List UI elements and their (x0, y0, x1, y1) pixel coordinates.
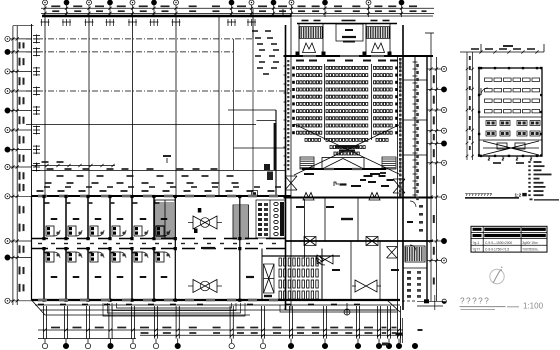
lobby walls (174, 196, 176, 300)
auditorium center text (335, 145, 359, 148)
top dimension line 1 (41, 7, 434, 9)
top dimension line 2 (41, 12, 434, 14)
wall label blobs (296, 60, 304, 62)
toilets right of lobby (256, 200, 285, 238)
entrance door left (butterfly) (303, 43, 316, 53)
right axis bubbles (441, 66, 446, 71)
backstage door left (hourglass) (285, 176, 297, 190)
svg-text:?????????: ????????? (465, 192, 492, 198)
top dimension text blobs (51, 5, 60, 7)
right strip door arcs (410, 201, 416, 251)
terrace outline lines (35, 305, 400, 315)
seat rows (297, 66, 322, 69)
north arrow circle (490, 269, 504, 283)
lobby elevation text 10.000 (201, 247, 215, 249)
hall bottom dimension line (32, 165, 116, 167)
entrance stair right (366, 27, 390, 39)
main title underline 1 (460, 306, 506, 308)
butterfly doors on backstage wall (303, 193, 314, 201)
front wall door gaps (303, 55, 316, 57)
small label M06 in hall (163, 155, 171, 157)
auditorium front wall (284, 55, 434, 57)
right dimension lines (430, 33, 432, 301)
main title dash (507, 306, 519, 308)
right wall fill (399, 58, 402, 60)
table row 2 (473, 234, 482, 237)
secondary plan door arc (481, 88, 488, 95)
hall right room horizontals (228, 109, 276, 111)
secondary plan top dimension line (460, 51, 544, 53)
svg-text:C-9-9—1500×2000: C-9-9—1500×2000 (485, 241, 512, 245)
left inner annotation column (287, 60, 289, 62)
room labels row 1 (51, 218, 58, 220)
annotation cluster right of hall (255, 37, 261, 39)
grid room door arc hatched (316, 256, 325, 265)
right strip mid fixtures (419, 205, 423, 208)
corridor walls (32, 238, 286, 240)
svg-text:?00?500m..: ?00?500m.. (522, 248, 539, 252)
bottom dimension blobs (51, 327, 60, 329)
column leader ticks below top wall (41, 19, 43, 26)
backstage wall (284, 197, 434, 199)
hall grid verticals (44, 16, 46, 195)
hall axis line C (26, 90, 291, 92)
room fixtures row 2 (46, 252, 54, 262)
legend list (528, 161, 530, 163)
secondary plan walls (479, 68, 542, 156)
short seat rows near stage (305, 138, 320, 141)
stage side steps right (382, 157, 396, 169)
auditorium right wall (402, 25, 404, 310)
seat grid room (279, 258, 281, 266)
room labels row 2 (51, 276, 58, 278)
left axis bubbles (5, 36, 10, 41)
stage apron marks (304, 173, 314, 175)
window labels below top wall (45, 202, 50, 204)
backstage labels (351, 185, 361, 187)
big room label (341, 218, 353, 220)
secondary plan stair X (483, 141, 539, 155)
room row2 right section walls (261, 249, 263, 301)
bottom dimension line 2 (140, 334, 403, 336)
secondary plan lower divider (479, 139, 542, 141)
bottom axis bubbles with leaders (42, 343, 47, 348)
extra bottom circle (412, 343, 417, 348)
right bottom corner dot (442, 299, 446, 303)
right strip lower room fixtures (407, 271, 411, 274)
bottom dimension line 1 (38, 329, 403, 331)
room block top wall with windows (32, 195, 292, 197)
hall right dark bar (274, 123, 276, 170)
staircase right of lobby (233, 205, 249, 239)
vestibule (336, 24, 363, 41)
window labels row2 top (45, 252, 50, 254)
lobby entrance steps (103, 303, 245, 316)
room fixtures row 1 (toilets) (46, 226, 54, 236)
secondary plan seat rows (485, 78, 493, 81)
backstage extra labels (364, 175, 373, 177)
front wall column squares (296, 52, 300, 57)
svg-text:C-9-9·1750×?1.5: C-9-9·1750×?1.5 (485, 248, 509, 252)
entrance stair left (299, 27, 323, 39)
secondary plan left dim chain (466, 52, 468, 160)
main title underline 2 (461, 309, 496, 311)
hall axis line B (26, 51, 234, 53)
right strip stair (405, 246, 425, 262)
hall right dark blocks (264, 164, 270, 170)
svg-text:1:2: 1:2 (515, 193, 522, 198)
lobby door top (revolving) (193, 216, 217, 229)
table row 1 (473, 228, 482, 231)
entrance dim text blobs (302, 20, 309, 22)
left dimension lines (12, 26, 14, 305)
partition end squares (42, 195, 45, 198)
hall inner wall verticals (233, 39, 235, 170)
lower band partitions (321, 249, 323, 301)
lower band labels (332, 269, 340, 271)
stair x-brace left of grid room (264, 264, 275, 293)
stage platform (322, 158, 364, 170)
subtitle underline (465, 197, 519, 199)
backstage door right (hourglass) (393, 179, 405, 193)
subtitle scale blob (522, 193, 527, 196)
left outer dim chain (284, 65, 287, 67)
staircase left of lobby (155, 200, 175, 239)
auditorium left wall (285, 25, 287, 310)
building left wall lower (31, 196, 33, 300)
svg-text:?g-1: ?g-1 (473, 241, 480, 245)
stamp leader pair (400, 318, 402, 343)
hall top wall (42, 15, 291, 17)
bottom dimension line 3 partial (38, 338, 136, 340)
left wall tick clusters (33, 34, 40, 36)
north arrow needle (493, 270, 501, 283)
entrance block verticals (298, 24, 300, 57)
lower band door bowtie (355, 280, 377, 292)
wall pilasters (292, 66, 295, 69)
entrance top wall (297, 23, 397, 25)
window annotation text row above room block (42, 161, 49, 163)
mid band vertical door hourglass (387, 247, 398, 259)
aisle lines (324, 64, 326, 140)
hall A label box (252, 191, 258, 197)
right outer wall (426, 57, 428, 300)
legend last underline (530, 198, 533, 200)
room partitions row 1 (43, 196, 45, 239)
secondary plan interior divider (479, 116, 542, 118)
right wall rotated text column (399, 58, 401, 61)
hall axis line A (26, 38, 253, 40)
grid room top wall (262, 255, 340, 257)
hall left wall (31, 24, 33, 196)
corridor tick marks (38, 243, 42, 244)
table frame (471, 226, 547, 252)
left dimension text blobs (19, 42, 21, 49)
secondary plan desk rows (486, 121, 496, 126)
stage side steps left (300, 157, 314, 169)
right strip vertical dim chain (414, 57, 416, 197)
room block bottom wall with windows (32, 299, 401, 301)
svg-text:3g00/·15m: 3g00/·15m (522, 241, 538, 245)
secondary plan wall columns (480, 67, 482, 69)
secondary plan bottom ticks (488, 156, 490, 161)
svg-text:1:100: 1:100 (523, 302, 544, 311)
svg-text:?????: ????? (460, 297, 490, 306)
right dimension blobs (433, 75, 435, 83)
window labels below bottom wall (38, 304, 44, 306)
hall axis line D (26, 124, 256, 126)
mid room band walls (286, 240, 434, 242)
room partitions row 2 (43, 249, 45, 301)
grid room door bowtie (317, 255, 333, 264)
lobby door bottom (revolving) (193, 280, 217, 293)
svg-text:?g??: ?g?? (473, 248, 481, 252)
backstage corner mark (334, 182, 339, 186)
right bottom corner leaders (402, 300, 417, 302)
mid band doors (304, 237, 316, 246)
entrance door right (butterfly) (372, 43, 385, 53)
bottom small stamp (382, 343, 388, 346)
auditorium apron steps (280, 305, 397, 312)
window labels above top wall (37, 190, 44, 192)
top axis bubbles with leaders (43, 0, 48, 5)
mid-plan axis bubble (344, 309, 350, 315)
sight line X (294, 124, 401, 175)
right strip rooms (403, 79, 427, 81)
